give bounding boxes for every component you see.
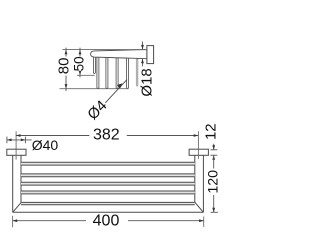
svg-text:Ø40: Ø40 bbox=[32, 137, 59, 153]
svg-text:80: 80 bbox=[56, 58, 73, 75]
shelf rail 3 bbox=[21, 182, 195, 185]
extension line (top, arm top level) bbox=[63, 49, 147, 51]
wire/bar B2 bbox=[97, 57, 99, 89]
dimension line 382 bbox=[16, 135, 89, 137]
svg-text:50: 50 bbox=[72, 56, 87, 71]
dimension line 50 bbox=[79, 48, 81, 57]
shelf rail 1 bbox=[21, 162, 195, 165]
dimension line 80 bbox=[65, 48, 67, 57]
svg-text:382: 382 bbox=[93, 127, 120, 144]
wall plate bbox=[147, 46, 154, 64]
dimension 12 (cap height) bbox=[211, 149, 218, 151]
right side plate (perspective) bbox=[194, 155, 196, 202]
svg-text:12: 12 bbox=[203, 123, 220, 140]
bottom front edge bbox=[13, 211, 204, 213]
wire/bar B4 bbox=[116, 57, 118, 89]
right mounting cap bbox=[189, 149, 208, 155]
wire/bar B3 bbox=[106, 57, 108, 89]
extension line (bottom of 50 dim) bbox=[77, 74, 95, 76]
mounting arm (horizontal tube) bbox=[91, 50, 147, 59]
left mounting cap bbox=[7, 149, 26, 155]
dimension line 120 bbox=[213, 155, 215, 168]
shelf rail 4 bbox=[21, 191, 195, 194]
right centerline (382 extension) bbox=[197, 131, 199, 159]
dimension D40 (cap width) bbox=[6, 137, 8, 144]
dimension line D18 (arm diameter) bbox=[142, 42, 144, 50]
shelf rail 2 bbox=[21, 174, 195, 177]
dimension line 400 bbox=[12, 216, 14, 227]
shelf rail 5 (bottom) bbox=[21, 202, 195, 204]
wire/bar B5 bbox=[127, 57, 129, 89]
svg-text:Ø18: Ø18 bbox=[139, 68, 156, 96]
wire/bar B6 (rear, greyed) bbox=[136, 57, 138, 86]
wire/bar B1 (short hanger bar) bbox=[93, 57, 95, 74]
extension line (bottom of 80 dim) bbox=[60, 88, 129, 90]
leader line D4 bbox=[105, 80, 127, 103]
svg-text:400: 400 bbox=[93, 212, 120, 229]
left centerline (382 extension) bbox=[15, 131, 17, 159]
extension tick (bottom right) bbox=[211, 211, 218, 213]
left side plate (perspective) bbox=[12, 155, 14, 212]
svg-text:120: 120 bbox=[205, 170, 221, 194]
